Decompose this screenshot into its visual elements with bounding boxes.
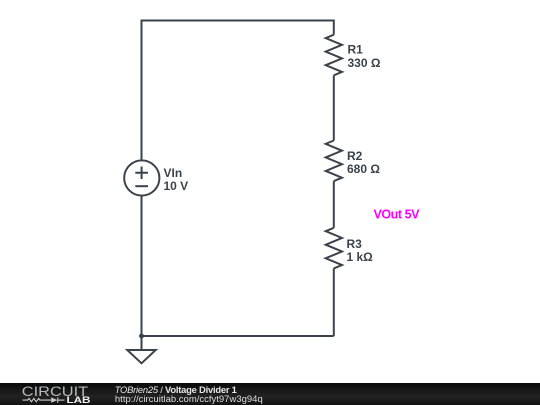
svg-text:VIn: VIn — [164, 166, 183, 180]
svg-text:680 Ω: 680 Ω — [347, 162, 380, 176]
svg-text:R2: R2 — [347, 149, 363, 163]
voltage source VIn circle — [124, 160, 159, 195]
svg-text:1 kΩ: 1 kΩ — [347, 250, 374, 264]
VIn plus sign — [135, 167, 148, 180]
wire right between R2 and R3 — [333, 181, 335, 228]
wire top horizontal — [142, 20, 334, 22]
footer bar — [0, 383, 540, 405]
wire right between R1 and R2 — [333, 75, 335, 140]
wire left vertical lower — [141, 196, 143, 336]
VIn minus sign — [135, 185, 148, 187]
CircuitLab logo wordmark — [0, 383, 110, 405]
resistor R1 — [326, 35, 342, 76]
node junction dot — [139, 334, 144, 339]
svg-text:10 V: 10 V — [164, 179, 189, 193]
wire bottom horizontal — [142, 335, 334, 337]
wire right top lead — [333, 20, 335, 35]
resistor R3 — [326, 228, 342, 269]
resistor R2 — [326, 141, 342, 182]
svg-text:LAB: LAB — [67, 395, 91, 405]
footer url — [115, 394, 263, 405]
svg-text:R1: R1 — [348, 43, 364, 57]
footer credit line — [115, 384, 237, 395]
wire right bottom lead — [333, 268, 335, 336]
wire left vertical upper — [141, 20, 143, 161]
ground symbol — [127, 350, 155, 363]
logo resistor zigzag + diode — [23, 397, 65, 402]
svg-text:330 Ω: 330 Ω — [348, 56, 381, 70]
svg-text:VOut 5V: VOut 5V — [374, 208, 421, 222]
ground lead — [141, 336, 143, 350]
